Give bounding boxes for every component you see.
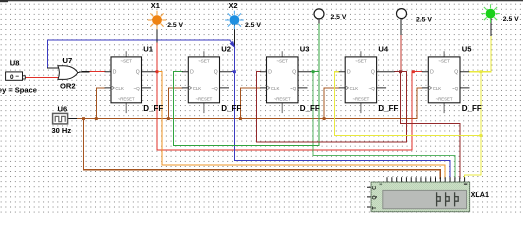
junction: clock U1 riser — [95, 117, 98, 120]
svg-text:~RESET: ~RESET — [118, 97, 135, 102]
wire: green branch U3 Q down and right to analyzer — [313, 72, 455, 179]
svg-text:X1: X1 — [151, 1, 160, 10]
wire: yellow U5 Q to probe5 — [469, 35, 491, 71]
D flip-flop U5 — [422, 51, 470, 113]
svg-text:D_FF: D_FF — [300, 104, 320, 113]
svg-text:~SET: ~SET — [276, 59, 288, 64]
junction: clock U3 riser — [239, 117, 242, 120]
svg-text:U2: U2 — [221, 45, 231, 54]
svg-text:C: C — [372, 186, 378, 190]
wire: U4 Q maroon link — [395, 71, 401, 73]
svg-text:D_FF: D_FF — [143, 104, 163, 113]
junction: clock U2 riser — [167, 117, 170, 120]
wire: blue vertical X2 through U2 Q down and right to analyzer — [234, 47, 450, 179]
svg-text:U6: U6 — [58, 104, 68, 113]
wire: probe5 black lead — [490, 19, 492, 36]
svg-text:U8: U8 — [10, 59, 20, 68]
svg-text:D: D — [113, 70, 117, 76]
clock source U6 — [53, 113, 68, 124]
junction: clock U4 riser — [323, 117, 326, 120]
D flip-flop U4 — [339, 51, 395, 113]
svg-text:D: D — [190, 70, 194, 76]
svg-text:D: D — [347, 70, 351, 76]
svg-text:CLK: CLK — [271, 86, 280, 91]
arrowhead on blue wire at X2 — [230, 41, 236, 49]
probe 3 (white circle) — [314, 9, 324, 19]
svg-text:CLK: CLK — [350, 86, 359, 91]
instrument XLA1 logic analyzer — [367, 177, 470, 212]
svg-text:~SET: ~SET — [198, 59, 210, 64]
junction: node U4 Q — [399, 70, 402, 73]
svg-text:~SET: ~SET — [438, 59, 450, 64]
svg-text:~Q: ~Q — [452, 86, 459, 91]
op gate: OR2 U7 — [58, 66, 78, 80]
probe X1 (orange) — [148, 11, 167, 30]
svg-text:D: D — [268, 70, 272, 76]
svg-text:2.5 V: 2.5 V — [503, 16, 519, 23]
wire: U2 Q blue link — [231, 71, 234, 73]
svg-text:Key = Space: Key = Space — [0, 85, 37, 94]
probe 5 (green) — [481, 4, 500, 23]
svg-text:CLK: CLK — [115, 86, 124, 91]
svg-text:XLA1: XLA1 — [471, 190, 489, 199]
wire: red switch U8 to OR gate input — [25, 76, 60, 78]
wire: X3 probe black lead — [318, 19, 320, 23]
wire: blue diagonal jog at X2 — [230, 40, 235, 46]
svg-text:~RESET: ~RESET — [436, 97, 453, 102]
sheet top border — [0, 0, 523, 1]
svg-text:U5: U5 — [462, 45, 472, 54]
junction: clock branch at U6 — [82, 117, 85, 120]
svg-text:~RESET: ~RESET — [352, 97, 369, 102]
svg-text:2.5 V: 2.5 V — [331, 14, 347, 21]
wire: clock riser to U3 CLK — [240, 88, 260, 119]
svg-text:OR2: OR2 — [60, 81, 76, 90]
wire: clock net main run from U6 to U5 CLK riser (brown) — [76, 88, 422, 119]
svg-text:~SET: ~SET — [355, 59, 367, 64]
wire: maroon feedback U4 Q to U3 D — [257, 72, 407, 142]
junction: node U2 Q — [233, 70, 236, 73]
svg-text:D_FF: D_FF — [378, 104, 398, 113]
wire: X4 probe black lead — [400, 19, 402, 35]
svg-text:D: D — [430, 70, 434, 76]
svg-text:~RESET: ~RESET — [274, 97, 291, 102]
svg-text:~SET: ~SET — [120, 59, 132, 64]
svg-text:U7: U7 — [63, 56, 73, 65]
wire: X1 probe black lead — [156, 25, 158, 42]
D flip-flop U1 — [105, 51, 156, 113]
wire: clock riser to U1 CLK — [96, 88, 105, 119]
svg-text:CLK: CLK — [433, 86, 442, 91]
svg-text:~Q: ~Q — [290, 86, 297, 91]
switch U8 (interactive digital constant) — [6, 72, 26, 81]
junction: yellow tee — [479, 134, 482, 137]
D flip-flop U2 — [182, 51, 232, 113]
svg-text:Q: Q — [214, 70, 218, 76]
probe X2 (blue) — [225, 11, 244, 30]
wire: orange branch U1 Q to logic analyzer — [157, 72, 445, 179]
wire: green X3 lead down then left and up to U2 D — [173, 19, 318, 146]
junction: node U1 Q — [156, 70, 159, 73]
svg-text:Q: Q — [372, 195, 378, 199]
wire: OR gate output black stub — [78, 71, 89, 74]
wire: OR gate top input black stub — [47, 67, 61, 69]
svg-text:U4: U4 — [378, 45, 388, 54]
wire: red OR gate output to U1 D — [89, 71, 105, 73]
svg-text:0: 0 — [10, 74, 14, 81]
svg-text:~RESET: ~RESET — [195, 97, 212, 102]
wire: U3 Q green link — [311, 71, 319, 73]
junction: node U5 D — [412, 70, 415, 73]
wire: yellow branch down to analyzer — [465, 72, 481, 179]
wire: clock branch down to logic analyzer pin — [84, 119, 441, 179]
svg-text:Q: Q — [136, 70, 140, 76]
wire: U6 clock output black stub — [68, 118, 77, 120]
wire: X4 lead lower red segment — [400, 35, 402, 72]
probe 4 (white circle) — [397, 9, 407, 19]
svg-text:~Q: ~Q — [211, 86, 218, 91]
wire: blue feedback wire to OR gate top input — [47, 40, 229, 68]
wire: U1 Q red link — [155, 71, 157, 73]
wire: yellow branch left and up to U4 D — [335, 72, 481, 136]
wire: X2 probe black lead — [233, 25, 235, 46]
svg-text:Q: Q — [292, 70, 296, 76]
svg-text:2.5 V: 2.5 V — [245, 22, 261, 29]
svg-text:~Q: ~Q — [369, 86, 376, 91]
svg-text:CLK: CLK — [193, 86, 202, 91]
svg-text:D_FF: D_FF — [221, 104, 241, 113]
svg-text:2.5 V: 2.5 V — [416, 17, 432, 24]
wire: red feedback U1 Q down and right to U5 D — [157, 72, 422, 151]
wire: clock riser to U4 CLK — [324, 88, 339, 119]
wire: X1 probe red lead to U1 Q node — [156, 42, 158, 72]
svg-text:U3: U3 — [300, 45, 310, 54]
svg-text:X2: X2 — [229, 1, 238, 10]
wire: clock riser to U2 CLK — [168, 88, 182, 119]
junction: node U3 Q — [312, 70, 315, 73]
junction: node U5 Q — [479, 70, 482, 73]
svg-text:D_FF: D_FF — [462, 104, 482, 113]
svg-text:Q: Q — [371, 70, 375, 76]
svg-text:Q: Q — [454, 70, 458, 76]
svg-text:U1: U1 — [143, 45, 153, 54]
D flip-flop U3 — [260, 51, 311, 113]
svg-text:~Q: ~Q — [133, 86, 140, 91]
svg-text:30 Hz: 30 Hz — [52, 126, 72, 135]
svg-text:2.5 V: 2.5 V — [167, 22, 183, 29]
wire: maroon branch U4 Q down and right to analyzer — [401, 72, 460, 179]
